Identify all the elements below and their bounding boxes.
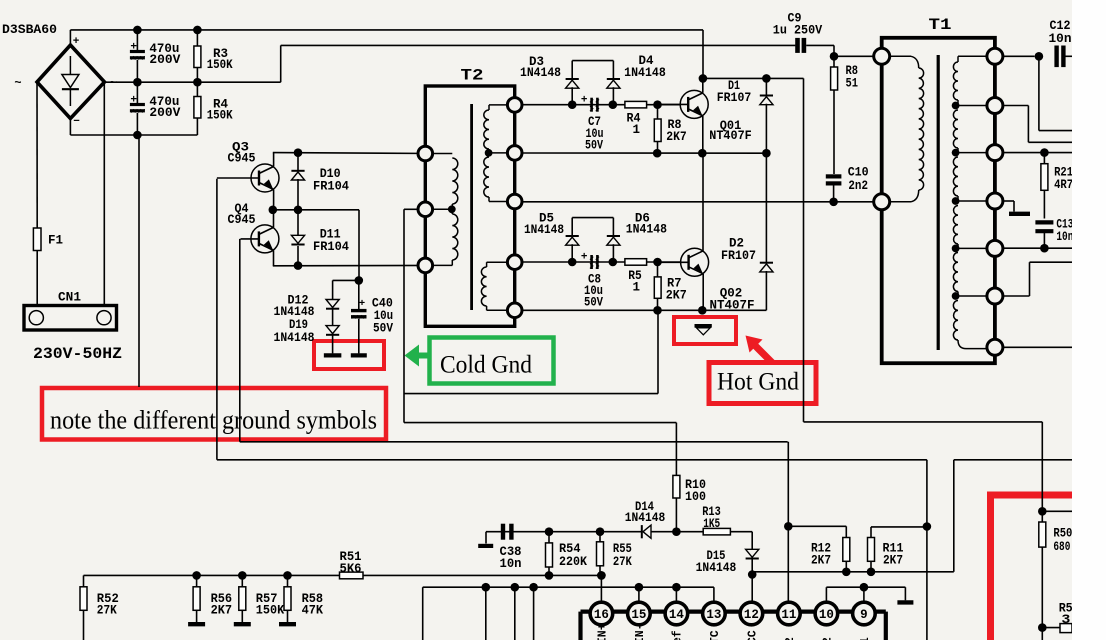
wire C2 top [136, 82, 138, 103]
transistor Q4 C945 [251, 225, 279, 253]
transformer T2 core box [425, 86, 514, 326]
wire top rail drop to Q01 collector [702, 30, 704, 79]
svg-text:FR107: FR107 [717, 91, 752, 105]
wire Q3/Q4 mid rail [273, 209, 359, 211]
svg-text:2IN-: 2IN- [634, 623, 647, 640]
wire snubber rail right [804, 421, 1043, 423]
wire Q01 emitter rail [522, 152, 766, 154]
diode D10 FR104 [297, 153, 299, 171]
svg-text:150K: 150K [207, 109, 233, 123]
svg-text:10n: 10n [1049, 32, 1072, 46]
wire base rail right segment [954, 459, 1072, 461]
svg-text:14: 14 [669, 608, 685, 622]
wire T1 tap2 [956, 152, 987, 154]
node R8c top [830, 52, 839, 61]
wire R52 rail [84, 574, 364, 576]
wire R10 drop [675, 423, 677, 476]
wire pin16 riser [600, 575, 602, 602]
node T1 tap4 [952, 245, 960, 253]
node R56 top [192, 571, 201, 580]
node D5 bottom [568, 258, 577, 267]
svg-text:+: + [130, 95, 137, 107]
node pin15 rail [635, 583, 644, 592]
node D11 bottom [294, 261, 303, 270]
node pin14 rail [672, 583, 681, 592]
svg-text:D3SBA60: D3SBA60 [2, 22, 57, 37]
node snubber junction [355, 276, 364, 285]
node R5 right [653, 258, 662, 267]
ground C38 [485, 532, 487, 544]
wire Q3 collector rail [273, 152, 434, 155]
IC pin 16 [590, 602, 613, 625]
wire mains return vertical [138, 135, 140, 387]
wire to D12 branch [333, 279, 359, 281]
svg-text:C945: C945 [228, 152, 256, 166]
T2 primary winding [434, 153, 453, 155]
wire R50 node stub [1042, 510, 1072, 512]
wire down to R50 [1041, 422, 1043, 511]
svg-text:1N4148: 1N4148 [696, 561, 737, 575]
svg-text:15: 15 [631, 608, 646, 622]
node R8 top [653, 100, 662, 109]
T2 secondary terminal 5 [507, 303, 522, 318]
T1 secondary winding s4 [953, 206, 958, 245]
resistor R7 2K7 [657, 262, 659, 277]
svg-text:C945: C945 [228, 213, 256, 227]
node R7 bottom [653, 306, 662, 315]
svg-text:1: 1 [633, 123, 641, 137]
svg-text:C10: C10 [848, 166, 869, 180]
T1 primary terminal top [874, 48, 890, 64]
capacitor C40 10u 50V [358, 280, 360, 309]
node pin16 riser [597, 571, 606, 580]
node T2 secondary tap [485, 149, 493, 157]
svg-text:1N4148: 1N4148 [274, 305, 315, 319]
wire output 7 stub [1003, 346, 1072, 348]
node R21 top [1040, 148, 1049, 157]
resistor R51 5K6 [340, 572, 364, 579]
T2 secondary terminal 3 [507, 194, 522, 209]
wire rail corner up [953, 460, 955, 572]
resistor R8b 2K7 [657, 105, 659, 119]
resistor R54 220K [548, 532, 550, 543]
capacitor C1 470u 200V [130, 50, 145, 53]
svg-text:VCC: VCC [746, 630, 759, 640]
T2 secondary terminal 2 [507, 146, 522, 161]
node C12 left [1035, 52, 1044, 61]
capacitor C38 10n [501, 524, 505, 540]
wire Q4 emitter rail [273, 264, 434, 266]
node T1 tap3 [952, 197, 960, 205]
svg-text:F1: F1 [48, 234, 63, 248]
svg-text:+: + [581, 252, 588, 264]
svg-text:2K7: 2K7 [883, 554, 903, 568]
IC pin 12 [740, 602, 763, 625]
IC pin 11 [778, 602, 801, 625]
wire mid rail drop [358, 210, 360, 281]
node R50 top [1038, 507, 1047, 516]
wire pin11 riser [787, 442, 789, 601]
node T1 tap5 [952, 292, 960, 300]
wire R12 R11 bottom rail [752, 571, 954, 573]
wire Q02 emitter rail [522, 309, 766, 311]
node D1 bottom [762, 149, 771, 158]
node Q02 emitter [698, 306, 707, 315]
ground R56 [188, 622, 205, 626]
node R55 bottom [597, 571, 606, 580]
red box around hot ground symbol [674, 317, 736, 344]
node R10 bottom [672, 527, 681, 536]
node D6 bottom [609, 258, 618, 267]
node C10 bottom [829, 198, 838, 207]
resistor R56 2K7 [196, 575, 198, 586]
resistor R11 2K7 [870, 527, 872, 538]
IC pin 15 [628, 602, 651, 625]
node mid rail at C1 [133, 78, 142, 87]
wire branch a down [485, 587, 487, 640]
node R54 top [545, 527, 554, 536]
svg-text:+: + [581, 95, 588, 107]
svg-text:CN1: CN1 [58, 290, 81, 304]
wire bridge top to rail [69, 30, 71, 45]
red Hot Gnd label box [709, 363, 816, 404]
wire pin14 riser [675, 587, 677, 602]
wire T1 tap3 [956, 200, 987, 202]
svg-text:−: − [73, 116, 80, 128]
svg-text:200V: 200V [149, 106, 181, 120]
resistor R10 100 [673, 475, 680, 498]
resistor R51b [1060, 624, 1072, 633]
wire pin15 riser [638, 587, 640, 602]
hot ground symbol [695, 324, 712, 328]
green arrow pointing to cold ground [405, 345, 420, 367]
svg-text:27K: 27K [97, 604, 117, 618]
wire top rail [70, 29, 703, 31]
wire C1 top [136, 30, 138, 50]
node D10 top [294, 148, 303, 157]
node R57 top [238, 571, 247, 580]
diode D3 1N4148 [566, 78, 579, 80]
svg-text:1N4148: 1N4148 [625, 511, 666, 525]
svg-text:1K5: 1K5 [703, 517, 720, 531]
capacitor C2 470u 200V [130, 103, 145, 106]
node branch c [529, 583, 538, 592]
svg-text:ref: ref [671, 630, 684, 640]
wire Q3 base rail right [217, 459, 927, 461]
node Q3 emitter Q4 collector [269, 206, 278, 215]
resistor R55 27K [599, 532, 601, 542]
wire Q3 base down [216, 179, 218, 460]
svg-text:50V: 50V [584, 296, 603, 310]
svg-text:150K: 150K [256, 604, 285, 618]
svg-text:100: 100 [685, 490, 706, 504]
wire C12 node down and out [1038, 56, 1040, 130]
bracket D3 D4 [572, 60, 613, 62]
T1 secondary winding s1 [958, 55, 987, 57]
wire T1 tap5 [956, 295, 987, 297]
wire Q4 base rail right [240, 441, 788, 443]
svg-text:Cold Gnd: Cold Gnd [440, 352, 532, 379]
wire output 5 rail [1003, 247, 1072, 249]
wire mid rail riser to gate drive rail [280, 45, 282, 82]
bracket D5 D6 [572, 217, 613, 219]
svg-text:50V: 50V [373, 322, 393, 336]
node R54 bottom [545, 571, 554, 580]
node on top rail at C1 [133, 26, 142, 35]
wire R54 node rail [486, 531, 642, 533]
svg-text:3: 3 [1061, 613, 1070, 627]
wire branch b down [514, 587, 516, 640]
wire T1 tap4 [956, 247, 987, 249]
wire D1 node to snubber drop [766, 77, 803, 79]
svg-text:1N4148: 1N4148 [626, 223, 667, 237]
svg-text:+: + [73, 36, 80, 48]
node branch a [482, 583, 491, 592]
ground stub output 4 [1003, 200, 1014, 202]
svg-text:FR107: FR107 [721, 249, 756, 263]
diode D15 1N4148 [746, 549, 759, 557]
T2 secondary terminal 1 [507, 98, 522, 113]
resistor R57 150K [241, 575, 243, 586]
svg-text:1N4148: 1N4148 [274, 331, 315, 345]
wire R50 bottom to edge [1042, 627, 1060, 629]
svg-text:+: + [130, 42, 137, 54]
IC pin 13 [703, 602, 726, 625]
transformer T1 core box [882, 38, 995, 363]
capacitor C10 2n2 [826, 174, 842, 178]
node R8b bottom [653, 149, 662, 158]
wire T2 mid-left terminal to left [404, 208, 420, 210]
red box around cold ground symbols [314, 341, 384, 369]
svg-text:T1: T1 [929, 16, 952, 34]
svg-text:10: 10 [819, 608, 834, 622]
node T1 tap2 [952, 149, 960, 157]
connector CN1 [24, 306, 117, 331]
wire output 1 to C12 [1003, 55, 1034, 57]
wire cold-gnd net horizontal [404, 393, 658, 395]
node Q01 collector [699, 74, 708, 83]
wire pin13 riser [713, 587, 715, 602]
diode D2 FR107 [765, 153, 767, 262]
wire output 6 stub [1003, 295, 1029, 297]
resistor R5 1 [625, 259, 647, 266]
svg-text:NT407F: NT407F [709, 129, 752, 143]
svg-text:47K: 47K [302, 604, 324, 618]
wire snubber drop long vertical [803, 78, 805, 422]
svg-text:11: 11 [781, 608, 796, 622]
svg-text:1: 1 [633, 280, 641, 294]
wire pin9 riser [863, 587, 865, 602]
svg-text:16: 16 [594, 608, 609, 622]
T1 secondary terminal 3 [987, 145, 1003, 161]
T1 secondary winding s3 [953, 157, 958, 196]
svg-text:Hot Gnd: Hot Gnd [717, 369, 799, 396]
node R55 top [596, 527, 605, 536]
resistor R13 1K5 [703, 528, 730, 535]
T1 secondary terminal 6 [987, 288, 1003, 304]
svg-text:230V-50HZ: 230V-50HZ [33, 345, 122, 363]
big red box bottom right [991, 495, 1073, 640]
svg-text:+: + [359, 298, 365, 310]
diode D5 1N4148 [566, 235, 579, 237]
ground R58 [279, 622, 296, 626]
wire collector to D1 [703, 77, 767, 79]
node D10 D11 junction [294, 206, 303, 215]
green Cold Gnd label box [430, 338, 554, 384]
T1 primary terminal bottom [874, 194, 890, 210]
wire bridge bottom rail [69, 119, 71, 136]
node T2 primary tap [448, 205, 456, 213]
node branch b [511, 583, 520, 592]
svg-text:FR104: FR104 [313, 180, 349, 194]
T1 secondary terminal 1 [987, 48, 1003, 64]
IC pin 9 [853, 602, 876, 625]
wire C12 out [1063, 55, 1072, 57]
wire R10 feed rail [404, 422, 676, 424]
resistor R12 2K7 [843, 538, 850, 562]
resistor R4b 1 [625, 101, 647, 108]
wire C1 bottom [136, 60, 138, 82]
node R11 top right [923, 522, 932, 531]
wire to R13 [676, 531, 703, 533]
svg-text:27K: 27K [613, 555, 632, 569]
resistor R50 680 [1041, 511, 1043, 522]
node bottom rail [133, 131, 142, 140]
wire pin10 net [825, 587, 827, 602]
wire R54 to R55 node [549, 574, 601, 576]
svg-text:D19: D19 [289, 318, 308, 332]
svg-text:~: ~ [110, 76, 117, 90]
svg-text:10n: 10n [500, 557, 522, 571]
svg-text:T2: T2 [461, 67, 484, 85]
svg-text:51: 51 [846, 76, 859, 90]
red arrow pointing to hot ground [746, 336, 763, 353]
wire rail to C9 [281, 44, 796, 46]
svg-text:~: ~ [14, 76, 21, 90]
svg-text:DTC: DTC [709, 630, 722, 640]
ground R57 [234, 622, 251, 626]
svg-text:FR104: FR104 [313, 240, 349, 254]
svg-text:5K6: 5K6 [340, 562, 362, 576]
wire Q4 base down [239, 239, 241, 442]
svg-text:9: 9 [860, 608, 868, 622]
IC pin 14 [665, 602, 688, 625]
resistor R8c 51 [833, 56, 835, 67]
svg-text:2IN+: 2IN+ [596, 623, 609, 640]
diode D19 1N4148 [326, 326, 339, 334]
IC body [581, 609, 886, 613]
cold ground under D19 [324, 353, 342, 357]
svg-text:12: 12 [744, 608, 759, 622]
wire pins rail [423, 586, 714, 588]
wire C13 bottom [1043, 231, 1045, 248]
T2 primary terminal 1 [418, 146, 433, 161]
svg-text:2K7: 2K7 [811, 554, 831, 568]
T1 secondary winding s2 [953, 110, 958, 148]
wire AC line left to fuse [36, 82, 38, 228]
T1 primary winding [890, 55, 911, 57]
T2 primary terminal 2 [418, 202, 433, 217]
svg-text:10n: 10n [1056, 230, 1073, 244]
wire branch c down [533, 587, 535, 640]
svg-text:50V: 50V [585, 138, 603, 152]
svg-text:150K: 150K [207, 58, 233, 72]
T2 upper secondary winding [489, 104, 507, 106]
svg-text:2K7: 2K7 [211, 604, 233, 618]
wire R13 to D15 [730, 531, 752, 533]
wire output 3 rail [1003, 152, 1072, 154]
red note box [42, 388, 386, 440]
svg-text:2n2: 2n2 [848, 179, 868, 193]
svg-text:220K: 220K [559, 555, 587, 569]
node R12 bottom [842, 568, 851, 577]
svg-text:1N4148: 1N4148 [624, 66, 666, 80]
svg-text:R54: R54 [559, 542, 581, 556]
ground pin10 net [897, 600, 913, 604]
wire center tap rail to T1 [522, 201, 873, 203]
svg-text:note the different ground symb: note the different ground symbols [50, 406, 377, 435]
node D1 top [762, 74, 771, 83]
IC pin 10 [815, 602, 838, 625]
svg-text:R50: R50 [1053, 527, 1072, 541]
resistor R52 27K [83, 575, 85, 586]
svg-text:4R7: 4R7 [1054, 178, 1073, 192]
svg-text:13: 13 [706, 608, 721, 622]
wire fuse to CN1 [36, 251, 38, 312]
wire R51 to R54 [363, 574, 549, 576]
wire riser to Q02 emitter rail [657, 310, 659, 393]
T2 primary terminal 3 [418, 258, 433, 273]
T1 secondary winding s5 [953, 253, 958, 292]
node on top rail at R3 [193, 26, 202, 35]
node pin9 riser [860, 583, 869, 592]
diode D14 1N4148 [641, 525, 643, 538]
svg-text:C12: C12 [1050, 19, 1071, 33]
wire R11 node down [926, 527, 928, 640]
node R51b left [1038, 623, 1047, 632]
svg-text:2K7: 2K7 [666, 289, 687, 303]
wire mid rail [105, 81, 281, 83]
wire top secondary rail [522, 104, 680, 106]
node D3 bottom [568, 100, 577, 109]
diode D1 FR107 [765, 78, 767, 95]
wire R12 top rail [788, 525, 846, 527]
capacitor C9 1u 250V [795, 38, 800, 53]
wire C2 bottom [136, 113, 138, 135]
svg-text:680: 680 [1053, 540, 1070, 554]
node R12 top [784, 522, 793, 531]
node mid rail at R3 [193, 78, 202, 87]
diode D11 FR104 [297, 210, 299, 236]
wire lower secondary rail [522, 261, 680, 263]
svg-text:1N4148: 1N4148 [524, 223, 564, 237]
svg-text:1u 250V: 1u 250V [773, 24, 823, 38]
transistor Q02 NT407F [681, 248, 709, 276]
bridge rectifier D3SBA60 [37, 45, 105, 119]
T1 secondary terminal 7 [987, 339, 1003, 355]
T1 secondary winding s6 [953, 301, 958, 341]
wire pin12 riser [751, 575, 753, 602]
node T1 tap1 [952, 102, 960, 110]
diode D12 1N4148 [326, 300, 339, 308]
T2 secondary terminal 4 [507, 255, 522, 270]
capacitor C8 10u 50V [590, 255, 593, 269]
wire T1 tap1 [956, 105, 987, 107]
node Q01 emitter [698, 149, 707, 158]
fuse F1 [33, 228, 41, 251]
svg-text:200V: 200V [149, 53, 181, 67]
T1 secondary terminal 2 [987, 98, 1003, 114]
